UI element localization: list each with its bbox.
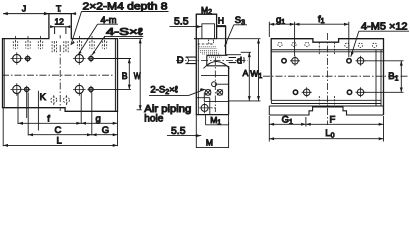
left view horizontal centerline: [2, 74, 114, 76]
right end inner verticals: [376, 50, 381, 106]
dimension L line: [3, 144, 117, 146]
dowel hole small top-right: [87, 55, 95, 62]
air piping circle: [199, 103, 216, 114]
row2 tapped hole right: [356, 87, 366, 97]
svg-text:A: A: [243, 68, 249, 78]
leader 4-S: [92, 37, 105, 56]
svg-text:12: 12: [54, 16, 64, 26]
svg-text:L0: L0: [325, 128, 334, 139]
svg-text:M: M: [206, 138, 213, 148]
inner right edge line: [114, 39, 116, 112]
svg-text:hole: hole: [144, 114, 163, 125]
dimension f g line: [18, 122, 118, 124]
counterbore hole top-left: [11, 52, 24, 65]
tongue centerline dashes: [59, 10, 61, 39]
svg-text:f: f: [47, 114, 50, 125]
dimension W1 line: [258, 39, 260, 101]
hidden circles in flange: [278, 42, 377, 47]
chord line under dome: [201, 74, 228, 76]
svg-text:W1: W1: [250, 69, 262, 80]
row1 tapped hole left: [290, 56, 300, 66]
right view horizontal centerline: [263, 75, 408, 77]
dimension M1: [206, 115, 229, 125]
hidden hole center ticks: [16, 36, 105, 53]
svg-text:G1: G1: [282, 115, 293, 126]
dimension 5.5 bottom: [167, 135, 201, 137]
label d: [236, 55, 244, 64]
dimension T outside arrows: [44, 13, 76, 15]
svg-text:g1: g1: [276, 15, 285, 26]
svg-text:5.5: 5.5: [174, 17, 189, 28]
dimension W1 extension lines: [217, 39, 261, 101]
left view vertical centerline: [59, 45, 61, 111]
label K with extension ticks: [27, 91, 39, 131]
hidden piping ports bottom center: [51, 95, 70, 105]
row1 tapped hole right: [356, 56, 366, 66]
svg-text:C: C: [55, 125, 62, 136]
svg-text:M2: M2: [201, 5, 212, 16]
internal step lines lower left: [196, 93, 228, 115]
dimension 12 line: [50, 27, 70, 34]
dimension A line: [248, 52, 250, 101]
svg-text:d: d: [237, 55, 242, 66]
rod right d: [229, 58, 244, 63]
extension of step for A: [226, 54, 241, 56]
dowel hole small top-left: [24, 55, 31, 62]
piston section: [207, 55, 228, 66]
inner wall line: [197, 39, 199, 115]
flange second line: [271, 51, 383, 53]
upper table block: [196, 14, 225, 55]
hidden small circle: [208, 39, 213, 44]
leader 2-S2: [188, 89, 205, 95]
leader 4-m: [78, 24, 98, 55]
svg-text:M1: M1: [210, 115, 221, 126]
body box: [196, 39, 228, 115]
dimension B line: [128, 59, 130, 90]
body top edge: [194, 38, 217, 40]
svg-text:f1: f1: [318, 14, 325, 25]
leader 2x2-M4: [71, 12, 82, 46]
rod end cap arc: [186, 57, 189, 64]
dimension B1 extension lines: [365, 61, 404, 93]
counterbore hole bottom-left: [11, 83, 24, 96]
right view vertical centerline: [327, 33, 329, 125]
screw hole right S2: [217, 90, 223, 96]
hidden line under table: [198, 43, 214, 45]
svg-text:2-S2×ℓ: 2-S2×ℓ: [150, 85, 178, 96]
dimension 12 arrows: [50, 25, 70, 28]
dimension L0 line: [269, 138, 383, 140]
svg-text:2×2-M4 depth 8: 2×2-M4 depth 8: [83, 2, 169, 13]
svg-text:W: W: [134, 71, 141, 82]
lower base plate top: [269, 106, 383, 115]
upper slide plate of band: [271, 100, 381, 103]
dimension M2 line: [196, 14, 216, 17]
dimension J arrows: [3, 12, 49, 15]
dimension W extension line top: [119, 38, 143, 40]
svg-text:K: K: [40, 92, 47, 103]
svg-text:5.5: 5.5: [171, 126, 186, 137]
dimension J line: [3, 13, 49, 15]
body outline left view: [3, 14, 118, 112]
dimension B1 line: [400, 61, 402, 93]
dowel hole small bottom-left: [23, 86, 30, 93]
dimension 5.5 top: [170, 26, 202, 28]
screw hole left S2: [205, 90, 211, 96]
dimension B extension lines: [94, 59, 132, 90]
T-slot groove in table block: [202, 24, 215, 39]
dimension g1 f1 line: [269, 23, 349, 25]
row2 dowel hole right: [347, 90, 351, 94]
svg-text:F: F: [330, 115, 336, 126]
svg-text:B1: B1: [388, 71, 398, 82]
extension lines bottom right dims: [269, 116, 383, 142]
svg-text:4-M5 ×12: 4-M5 ×12: [361, 21, 408, 32]
row2 dowel hole left: [293, 90, 297, 94]
hidden tapped holes along top edge: [13, 41, 106, 52]
svg-text:g: g: [96, 114, 101, 125]
dimension W line: [137, 39, 142, 110]
dimension M: [196, 115, 228, 148]
svg-text:J: J: [22, 3, 26, 13]
dimension C G line: [28, 134, 117, 136]
line from plain circle to right edge: [216, 83, 228, 85]
leader S3: [225, 25, 234, 47]
svg-text:G: G: [102, 125, 109, 136]
row1 dowel hole left: [282, 59, 286, 63]
hatch dots region: [199, 47, 221, 57]
svg-text:B: B: [122, 71, 128, 82]
flange bottom line: [271, 49, 383, 51]
top flange outline: [271, 39, 383, 115]
plain circle small: [212, 82, 217, 87]
dimension H line: [217, 25, 226, 28]
leader 4-M5: [351, 31, 359, 57]
dimension A extension line top: [241, 51, 251, 53]
counterbore hole top-right: [73, 52, 86, 65]
row1 dowel hole right: [347, 59, 351, 63]
rod axis centerline: [176, 59, 248, 61]
lower base plate stepped bottom: [269, 107, 383, 115]
inner left edge line: [3, 39, 5, 108]
svg-text:L: L: [57, 136, 62, 147]
svg-text:H: H: [218, 16, 224, 26]
extension lines bottom dims: [3, 93, 117, 147]
lower features centerline: [214, 58, 216, 112]
dowel hole small bottom-right: [87, 86, 95, 93]
dimension G1 F line: [269, 123, 383, 125]
piston rod left D: [186, 57, 197, 64]
hidden slot verticals: [319, 42, 334, 106]
counterbore hole bottom-right: [73, 83, 86, 96]
row2 tapped hole left: [302, 87, 312, 97]
dimension g1 f1 extension lines: [269, 22, 349, 57]
bore dome arc: [204, 62, 230, 69]
